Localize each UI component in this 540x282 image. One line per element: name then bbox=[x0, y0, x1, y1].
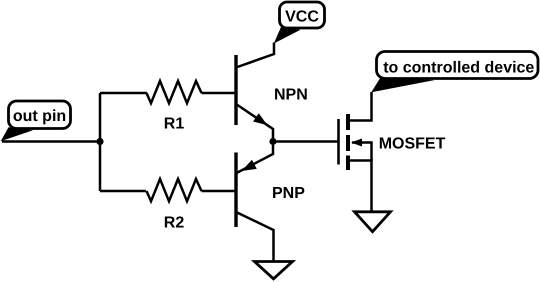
transistor Q1 NPN bbox=[236, 43, 274, 142]
Q1 base bar bbox=[234, 55, 237, 125]
Q1 collector bbox=[236, 43, 274, 68]
wire: out pin tail to node A bbox=[2, 140, 100, 143]
Q1 emitter arrow bbox=[253, 113, 270, 129]
ground below Q2 bbox=[255, 262, 293, 279]
M1 channel segment middle bbox=[346, 135, 350, 151]
wire: node A to R2 bbox=[100, 190, 146, 193]
svg-text:R1: R1 bbox=[164, 116, 185, 133]
node B junction dot bbox=[269, 138, 276, 145]
node A junction dot bbox=[96, 138, 103, 145]
svg-text:NPN: NPN bbox=[274, 87, 308, 104]
Q2 base bar bbox=[234, 153, 237, 228]
wire: R2 to Q2 base bbox=[202, 190, 237, 193]
callout "to controlled device" bbox=[371, 52, 538, 93]
Q2 emitter bbox=[237, 142, 274, 174]
svg-text:out pin: out pin bbox=[13, 108, 66, 125]
M1 channel segment bottom bbox=[346, 156, 350, 171]
transistor Q2 PNP bbox=[236, 142, 274, 262]
resistor R2 bbox=[147, 179, 202, 201]
callout VCC bbox=[274, 2, 325, 44]
ground below M1 bbox=[355, 212, 391, 232]
M1 body lead bbox=[352, 143, 372, 161]
svg-text:PNP: PNP bbox=[272, 185, 305, 202]
wire: R1 to Q1 base bbox=[202, 92, 237, 95]
wire: node B to M1 gate bbox=[273, 140, 338, 143]
MOSFET M1 bbox=[339, 92, 372, 212]
resistor R1 bbox=[147, 81, 202, 103]
wire: node A vertical bus bbox=[99, 93, 102, 191]
Q2 emitter arrow bbox=[239, 160, 257, 176]
svg-text:MOSFET: MOSFET bbox=[379, 136, 446, 153]
M1 source lead bbox=[348, 161, 372, 213]
callout "out pin" bbox=[1, 101, 71, 141]
Q2 collector bbox=[236, 212, 274, 261]
M1 body arrow bbox=[351, 139, 362, 147]
svg-text:R2: R2 bbox=[164, 215, 185, 232]
svg-text:VCC: VCC bbox=[285, 9, 319, 26]
Q1 emitter bbox=[236, 104, 273, 142]
M1 gate bar bbox=[337, 119, 340, 165]
wire: node A to R1 bbox=[100, 92, 147, 95]
M1 drain lead bbox=[348, 92, 372, 121]
svg-text:to controlled device: to controlled device bbox=[383, 60, 534, 77]
M1 channel segment top bbox=[346, 114, 350, 130]
